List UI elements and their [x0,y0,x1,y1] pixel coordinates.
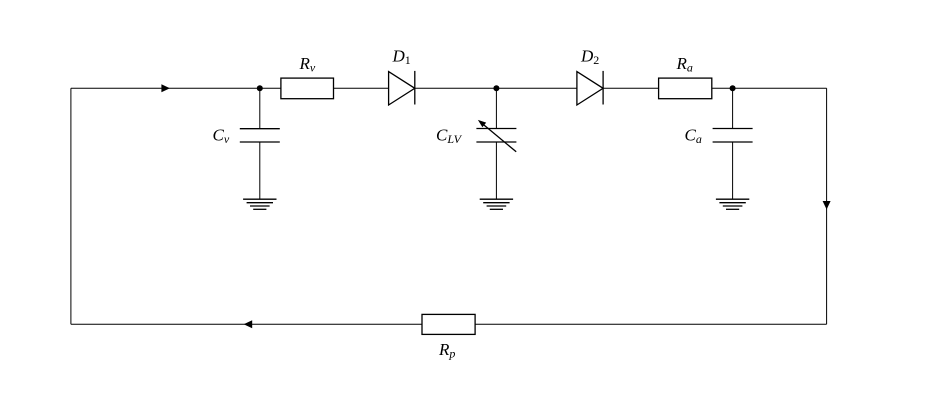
wire D1 to D2 (through node B) [415,87,577,89]
svg-text:CLV: CLV [436,126,463,147]
resistor R_a [659,78,712,99]
capacitor C_a wire stub from node C [732,88,734,128]
svg-text:Rv: Rv [299,54,316,75]
arrowhead current direction left on bottom wire [244,320,253,328]
diode D2 [577,71,603,105]
arrowhead current direction down on right wire [823,201,831,210]
wire bottom left segment (R_p to corner) [71,323,422,325]
svg-text:D2: D2 [580,47,599,67]
node B junction dot (C_LV tap) [493,85,499,91]
diode D1 [389,71,415,105]
capacitor C_LV lower wire stub [495,142,497,199]
wire right vertical [826,88,828,324]
capacitor C_LV wire stub from node B [495,88,497,128]
node C junction dot (C_a tap) [730,85,736,91]
ground under C_LV [480,199,513,209]
wire D2 to R_a [603,87,659,89]
variable capacitor C_LV [476,129,516,143]
wire R_v to D1 [334,87,389,89]
ground under C_v [243,199,276,209]
svg-text:Ra: Ra [676,54,693,75]
capacitor C_a lower wire stub [732,142,734,199]
capacitor C_v lower wire stub [259,142,261,199]
capacitor C_a [713,129,753,143]
wire left vertical [70,88,72,324]
svg-text:Cv: Cv [213,126,230,147]
wire top segment corner to R_v [71,87,281,89]
resistor R_v [281,78,334,99]
capacitor C_v wire stub from node A [259,88,261,128]
svg-text:D1: D1 [392,47,411,67]
wire bottom right segment (corner to R_p) [475,323,826,325]
variable capacitor C_LV adjustment arrow [478,120,516,152]
svg-text:Ca: Ca [685,126,702,147]
svg-text:Rp: Rp [438,340,455,361]
wire R_a to top-right corner [712,87,827,89]
capacitor C_v [240,129,280,142]
node A junction dot (C_v tap) [257,85,263,91]
arrowhead current direction right on top wire [161,84,170,92]
ground under C_a [716,199,749,209]
resistor R_p [422,314,475,334]
